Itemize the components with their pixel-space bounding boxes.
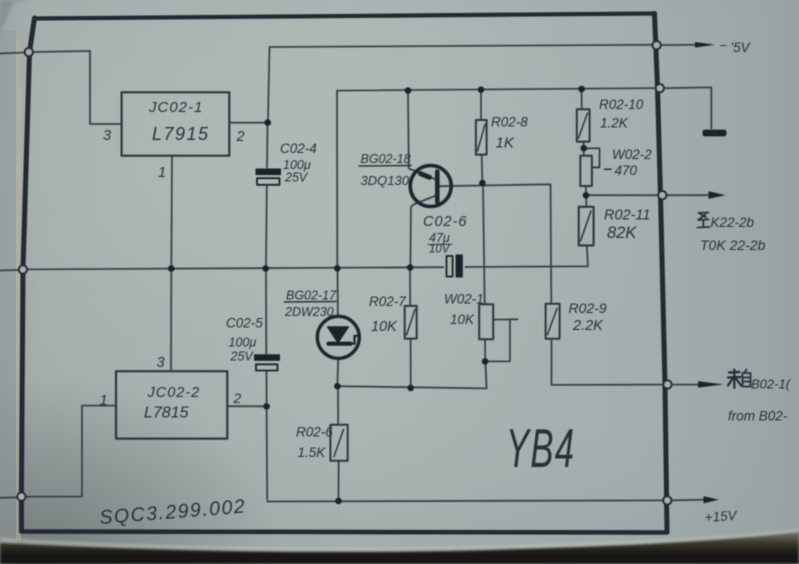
wire: W02-2 node to right border — [589, 194, 658, 196]
svg-text:3: 3 — [103, 128, 111, 144]
open terminal circles — [17, 41, 671, 504]
wire: ground branch — [663, 87, 712, 128]
svg-text:R02-8: R02-8 — [491, 115, 528, 130]
junction: bottom line / zener — [334, 383, 341, 390]
svg-text:10K: 10K — [371, 319, 398, 335]
wire: middle rail right of C02-6 to R02-11 — [466, 246, 589, 268]
transistor Q1 BG02-18 — [410, 166, 451, 207]
junction: middle rail / C02 column — [262, 265, 269, 272]
potentiometer W02-1 — [479, 304, 493, 339]
op-amp/regulator JC02-1 box — [122, 92, 230, 155]
svg-text:JC02-2: JC02-2 — [147, 385, 201, 401]
node: -15V terminal — [653, 41, 661, 49]
capacitor C02-4 — [256, 169, 282, 185]
wire: JC02-1 pin1 down to middle rail — [170, 156, 173, 269]
wire: +15V arrow line — [672, 499, 708, 502]
junction: middle rail / R02-7 emitter — [407, 264, 414, 271]
svg-text:25V: 25V — [284, 171, 309, 185]
svg-text:25V: 25V — [230, 350, 255, 364]
svg-text:470: 470 — [615, 163, 638, 178]
svg-text:2: 2 — [236, 129, 245, 145]
wire: top rail down to BG02-17 column — [336, 91, 338, 266]
arrow: to K22-2b — [709, 191, 726, 199]
junction: top rail / collector — [405, 87, 412, 94]
wire: R02-7 bottom lead — [410, 339, 412, 385]
svg-text:2DW230: 2DW230 — [284, 305, 334, 319]
wire: JC02-2 pin2 to junction — [228, 405, 264, 407]
node: left -15V input — [25, 48, 33, 56]
svg-text:1: 1 — [100, 393, 108, 409]
svg-text:BG02-17: BG02-17 — [286, 289, 337, 303]
wire: -15V arrow line — [661, 44, 700, 46]
junction: +15V rail / R02-6 — [335, 498, 342, 505]
junction: bottom line / R02-7 — [407, 385, 414, 392]
wire: R02-10 top lead — [581, 92, 583, 109]
svg-text:3: 3 — [157, 355, 165, 371]
wire: R02-10 to W02-2 — [583, 142, 585, 156]
wire: middle rail stub from left edge — [0, 269, 18, 272]
svg-text:R02-9: R02-9 — [569, 300, 607, 316]
node: left middle input — [19, 265, 27, 273]
wire: W02-1 wiper arm — [488, 319, 518, 361]
wire: C02-4 column upper — [266, 126, 269, 168]
border frame bottom — [22, 532, 668, 533]
arrow: from B02 — [698, 381, 724, 387]
resistor R02-6 — [330, 425, 347, 461]
underline 47u — [428, 243, 452, 245]
node: ground rail terminal — [656, 84, 664, 92]
underline BG02-18 — [359, 165, 411, 168]
resistor R02-7 — [405, 306, 417, 339]
node: +15V terminal — [663, 496, 671, 504]
wire: zener bottom lead — [337, 358, 340, 383]
regulator JC02-2 box — [116, 371, 227, 438]
wire: R02-8 bottom lead — [481, 155, 484, 180]
svg-text:2: 2 — [233, 390, 242, 406]
capacitor C02-6 — [447, 255, 463, 278]
arrow: +15V — [704, 496, 720, 503]
junction: top rail / R02-8 — [478, 86, 485, 93]
wire: +15V rail — [267, 500, 663, 501]
wire: R02-9 bottom to B02 node — [552, 339, 664, 385]
wire: B02 arrow line — [674, 384, 704, 386]
node: B02 input terminal — [663, 380, 671, 388]
svg-text:from B02-: from B02- — [728, 409, 788, 424]
junction: top rail / R02-10 — [578, 86, 585, 93]
svg-text:1: 1 — [158, 165, 166, 181]
zener diode BG02-17 — [317, 316, 359, 358]
resistor R02-9 — [546, 304, 560, 339]
svg-text:T0K 22-2b: T0K 22-2b — [700, 237, 766, 253]
hanzi: zi (self) — [743, 370, 751, 387]
wire: JC02-1 pin2 to C02-4 column — [230, 122, 266, 124]
node: left +15V input — [17, 493, 25, 501]
wire: zener top lead — [337, 271, 339, 317]
wire: BG02-18 collector — [408, 94, 436, 180]
potentiometer W02-2 — [580, 148, 611, 186]
wire: C02-5 to JC02-2 pin2 junction — [266, 372, 268, 404]
wire: W02-1 node down to bottom line — [486, 364, 487, 387]
svg-text:L7815: L7815 — [144, 405, 189, 422]
svg-text:1.2K: 1.2K — [600, 116, 629, 131]
wire: BG02-18 base lead to R02-9 — [440, 184, 552, 302]
underline BG02-17 — [285, 301, 337, 304]
svg-text:3DQ130: 3DQ130 — [361, 173, 410, 188]
wire: K22-2b arrow line — [666, 194, 712, 196]
wire: W02-1 bottom lead — [484, 340, 486, 359]
resistor R02-11 — [579, 207, 594, 246]
svg-text:R02-11: R02-11 — [604, 208, 650, 224]
paper left edge band — [0, 30, 16, 564]
wire: R02-8 top lead — [480, 92, 482, 120]
wire: node to JC02-1 pin3 — [33, 51, 122, 124]
wire: W02-2 bottom lead — [585, 186, 587, 192]
svg-text:R02-7: R02-7 — [369, 294, 406, 309]
svg-text:1K: 1K — [496, 135, 515, 152]
junction: middle rail / regulator column — [168, 265, 175, 272]
wire: C02-4 column to middle rail — [265, 187, 268, 266]
capacitor C02-5 — [254, 354, 280, 370]
junction: W02-2 wiper top — [581, 145, 588, 152]
wire: middle rail left of C02-6 — [27, 267, 444, 269]
svg-text:C02-4: C02-4 — [280, 141, 317, 156]
wire: -15V rail down to JC02-1 pin2 junction — [268, 47, 270, 120]
svg-text:'5V: '5V — [731, 40, 752, 55]
junction: W02-2 / R02-11 node — [583, 192, 590, 199]
junction: JC02-2 pin2 node — [263, 403, 270, 410]
border frame top — [35, 14, 655, 19]
resistor R02-10 — [577, 109, 590, 141]
wire: R02-8 junction down to W02-1 — [483, 186, 485, 304]
wire: R02-7 top lead — [409, 271, 411, 306]
wire: R02-11 top lead — [585, 198, 587, 207]
node: K22-2b terminal — [658, 191, 666, 199]
wire: left stub to -15V input node — [0, 53, 25, 54]
svg-text:L7915: L7915 — [152, 124, 210, 144]
junction: W02-1 wiper bottom — [482, 358, 489, 365]
svg-text:B02-1(: B02-1( — [751, 377, 792, 392]
hanzi: zhi (to) — [698, 213, 710, 228]
svg-text:BG02-18: BG02-18 — [361, 152, 411, 166]
hanzi: lai (from) — [728, 370, 741, 389]
wire: JC02-2 pin1 loop to left node — [26, 406, 117, 497]
wire: column down to +15V rail — [266, 406, 269, 499]
junction: base line / R02-8 bottom — [479, 180, 486, 187]
arrowheads — [695, 42, 726, 503]
svg-text:+15V: +15V — [704, 508, 739, 525]
svg-text:C02-6: C02-6 — [423, 214, 468, 230]
svg-text:JC02-1: JC02-1 — [148, 99, 203, 116]
dark photo strip along bottom — [0, 531, 799, 550]
svg-text:K22-2b: K22-2b — [711, 215, 755, 230]
wire: middle rail down to C02-5 — [265, 272, 267, 355]
svg-text:C02-5: C02-5 — [226, 316, 263, 331]
wire: top rail — [337, 88, 656, 91]
svg-text:−: − — [720, 38, 728, 53]
ground symbol — [703, 130, 727, 137]
svg-text:R02-10: R02-10 — [599, 97, 644, 112]
border frame left — [21, 18, 34, 531]
svg-text:10V: 10V — [429, 244, 451, 256]
svg-text:R02-6: R02-6 — [296, 425, 333, 440]
resistor R02-8 — [476, 120, 487, 155]
wire: left stub bottom — [0, 496, 17, 499]
wire: BG02-18 emitter — [410, 196, 436, 265]
wire: bottom line zener to W02-1 — [337, 386, 486, 388]
dark photo corner top-left — [0, 0, 34, 36]
svg-text:2.2K: 2.2K — [572, 318, 604, 334]
wire: R02-6 bottom lead — [338, 461, 340, 499]
junction: JC02-1 pin2 / C02-4 — [264, 119, 271, 126]
wire: R02-6 top lead — [337, 389, 339, 425]
svg-text:82K: 82K — [607, 224, 637, 242]
border frame right — [655, 14, 668, 533]
svg-text:W02-1: W02-1 — [444, 292, 484, 307]
wire: -15V rail to right border — [270, 45, 656, 47]
wire: middle rail down to JC02-2 pin3 — [170, 269, 172, 371]
svg-text:W02-2: W02-2 — [612, 147, 652, 162]
svg-text:10K: 10K — [450, 312, 475, 327]
svg-text:1.5K: 1.5K — [298, 445, 327, 460]
arrow: -15V — [695, 42, 715, 48]
svg-text:100μ: 100μ — [229, 336, 257, 350]
svg-text:YB4: YB4 — [506, 417, 575, 479]
junction: middle rail / zener column — [334, 265, 341, 272]
